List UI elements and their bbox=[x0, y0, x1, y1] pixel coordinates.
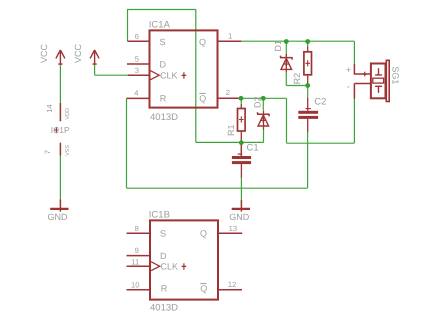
wire C2 top lead bbox=[307, 86, 309, 98]
svg-text:SG1: SG1 bbox=[390, 66, 400, 84]
svg-text:GND: GND bbox=[229, 212, 250, 222]
wire D2 top lead bbox=[262, 98, 264, 110]
junction dot node Qbar R1 bbox=[239, 96, 244, 101]
IC1A pin 1 stub bbox=[218, 40, 242, 42]
IC1B clock triangle bbox=[151, 262, 160, 271]
IC1B Qbar overline bbox=[200, 283, 206, 285]
svg-text:D1: D1 bbox=[273, 40, 283, 52]
IC1A pin 6 stub bbox=[128, 40, 150, 42]
wire VCC1 down to pin14 bbox=[59, 64, 61, 103]
IC1B pin 12 stub bbox=[218, 289, 242, 291]
svg-text:S: S bbox=[160, 37, 166, 47]
IC1B pin 9 stub bbox=[127, 255, 151, 257]
svg-text:6: 6 bbox=[135, 32, 139, 41]
VCC symbol 2 arrow bbox=[90, 50, 99, 64]
wire SG1 minus vertical bbox=[353, 98, 355, 143]
IC1B pin 13 stub bbox=[218, 232, 242, 234]
wire top rail horizontal bbox=[127, 9, 196, 11]
svg-text:VCC: VCC bbox=[39, 43, 49, 63]
wire Q-net down to SG1 plus bbox=[353, 41, 355, 64]
svg-text:5: 5 bbox=[135, 55, 139, 64]
wire D2 bottom lead bbox=[263, 129, 265, 143]
junction dot node Q R2 bbox=[305, 39, 310, 44]
resistor R1 bbox=[238, 104, 246, 156]
wire VCC2 to CLK pin3 bbox=[95, 74, 129, 76]
svg-text:IC1B: IC1B bbox=[149, 209, 170, 220]
wire VCC2 down bbox=[94, 64, 96, 75]
svg-text:9: 9 bbox=[135, 246, 139, 255]
svg-text:Q: Q bbox=[199, 93, 206, 103]
svg-text:10: 10 bbox=[131, 280, 139, 289]
IC1A origin cross bbox=[182, 72, 187, 79]
svg-text:11: 11 bbox=[131, 257, 139, 266]
IC1A pin 5 stub bbox=[127, 63, 150, 65]
wire R-net up to C2 bottom bbox=[307, 131, 309, 189]
wire D1 to R2C2 junction bbox=[286, 85, 307, 87]
IC1P pin 7 stub bbox=[59, 143, 61, 156]
svg-text:GND: GND bbox=[48, 212, 69, 222]
svg-text:VSS: VSS bbox=[65, 145, 71, 156]
wire R1 top lead bbox=[240, 98, 242, 104]
IC1B pin 8 stub bbox=[127, 232, 151, 234]
junction dot node Q D1 bbox=[284, 39, 289, 44]
IC1A pin 2 stub bbox=[218, 97, 239, 99]
wire Qbar-net to SG1 minus bbox=[287, 142, 355, 144]
svg-text:CLK: CLK bbox=[160, 71, 178, 81]
junction dot node Qbar D2 bbox=[261, 96, 266, 101]
wire Qbar-net down bbox=[286, 98, 288, 143]
svg-text:IC1A: IC1A bbox=[149, 20, 171, 31]
ground GND1 stem bbox=[59, 199, 61, 211]
svg-text:S: S bbox=[160, 229, 166, 239]
svg-text:+: + bbox=[346, 65, 352, 76]
IC1A clock triangle bbox=[151, 71, 160, 80]
svg-text:2: 2 bbox=[226, 88, 230, 97]
ground GND2 stem bbox=[240, 200, 242, 212]
wire Qbar-net horizontal bbox=[238, 97, 287, 99]
capacitor C1 polarized bbox=[232, 143, 251, 178]
wire S-net: pin6 up to top rail bbox=[127, 10, 129, 42]
svg-text:8: 8 bbox=[135, 224, 139, 233]
svg-text:4013D: 4013D bbox=[150, 112, 178, 123]
svg-text:R: R bbox=[160, 93, 167, 103]
wire D1 top lead bbox=[285, 42, 287, 57]
svg-text:C2: C2 bbox=[314, 97, 326, 108]
IC1A Qbar overline bbox=[199, 92, 205, 94]
diode D2 zener bbox=[257, 111, 270, 130]
diode D1 zener bbox=[280, 54, 293, 72]
wire node B horizontal bbox=[196, 141, 264, 143]
svg-text:R: R bbox=[161, 284, 168, 294]
svg-text:7: 7 bbox=[43, 150, 52, 154]
wire R-net: pin4 down bbox=[126, 98, 128, 188]
ground GND1 bar bbox=[50, 208, 68, 210]
IC1P pin 14 stub bbox=[59, 103, 61, 121]
svg-text:14: 14 bbox=[45, 104, 54, 112]
wire Q-net horizontal bbox=[241, 40, 354, 42]
svg-text:13: 13 bbox=[229, 224, 237, 233]
wire vertical through IC1A body bbox=[195, 10, 197, 143]
svg-text:4013D: 4013D bbox=[150, 302, 178, 313]
IC1A pin 4 stub bbox=[127, 97, 150, 99]
svg-text:R2: R2 bbox=[292, 73, 302, 85]
IC1B pin 11 stub bbox=[127, 265, 151, 267]
IC1A flip-flop box bbox=[150, 30, 218, 107]
junction dot node B C1 bbox=[239, 140, 244, 145]
wire pin7 to GND1 bbox=[59, 156, 61, 200]
svg-text:VCC: VCC bbox=[73, 43, 83, 63]
svg-text:4: 4 bbox=[134, 88, 138, 97]
svg-text:12: 12 bbox=[228, 280, 236, 289]
svg-text:Q: Q bbox=[200, 284, 207, 294]
svg-text:Q: Q bbox=[199, 37, 206, 47]
svg-text:C1: C1 bbox=[247, 143, 259, 154]
wire C1 bottom to GND2 bbox=[240, 178, 242, 201]
svg-text:1: 1 bbox=[228, 31, 232, 40]
svg-text:D: D bbox=[160, 251, 167, 261]
svg-text:VDD: VDD bbox=[65, 108, 71, 120]
wire R-net bottom horizontal bbox=[127, 187, 308, 189]
wire D1 bottom lead bbox=[285, 72, 287, 85]
VCC symbol 1 arrow bbox=[56, 50, 65, 64]
svg-text:R1: R1 bbox=[226, 124, 236, 136]
IC1B flip-flop box bbox=[150, 220, 218, 299]
buzzer SG1 bbox=[354, 60, 389, 101]
IC1A pin 3 stub bbox=[128, 74, 150, 76]
svg-text:CLK: CLK bbox=[161, 262, 179, 272]
IC1B pin 10 stub bbox=[127, 289, 151, 291]
IC1P origin cross bbox=[54, 127, 58, 133]
capacitor C2 polarized bbox=[298, 98, 318, 132]
resistor R2 bbox=[304, 46, 312, 85]
svg-text:D: D bbox=[160, 59, 167, 69]
svg-text:-: - bbox=[347, 82, 350, 93]
junction dot node R2 C2 bbox=[305, 83, 310, 88]
svg-text:Q: Q bbox=[200, 229, 207, 239]
wire R2 top lead bbox=[307, 42, 309, 47]
svg-text:IC1P: IC1P bbox=[51, 125, 70, 135]
ground GND2 bar bbox=[232, 208, 250, 210]
svg-text:3: 3 bbox=[135, 66, 139, 75]
IC1B origin cross bbox=[182, 263, 187, 270]
